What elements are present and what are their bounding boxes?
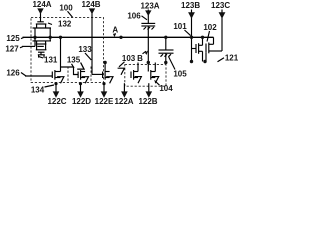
label 135 (67, 56, 81, 68)
svg-text:132: 132 (58, 20, 72, 29)
transistor 101 (173, 22, 204, 63)
wire A to T4 gate (118, 68, 125, 75)
output terminal 122D (72, 82, 91, 106)
svg-text:127: 127 (5, 44, 19, 53)
label 127 (5, 44, 23, 53)
input terminal 123B (181, 1, 200, 62)
svg-text:106: 106 (127, 12, 141, 21)
svg-text:134: 134 (31, 86, 45, 95)
output terminal 122C (47, 82, 66, 106)
svg-text:126: 126 (6, 69, 20, 78)
svg-text:B: B (137, 54, 143, 63)
label 134 (31, 85, 54, 95)
dashed box 104 (125, 65, 166, 87)
transistor 131 (33, 41, 58, 65)
label 133 (78, 45, 92, 60)
label 125 (6, 34, 24, 43)
output terminal 122E (95, 82, 114, 106)
label 121 (218, 54, 239, 63)
node A (112, 25, 118, 37)
node dot left (33, 36, 36, 39)
svg-text:124B: 124B (81, 0, 100, 9)
wire left pillar (34, 28, 36, 41)
svg-text:123A: 123A (140, 1, 159, 10)
dashed divider right (90, 67, 92, 83)
svg-text:122D: 122D (72, 97, 91, 106)
wire branch to T2 gate (61, 67, 79, 75)
node dot right (49, 36, 52, 39)
svg-text:122B: 122B (138, 97, 157, 106)
svg-text:131: 131 (44, 55, 58, 64)
capacitor 106 (127, 12, 155, 38)
svg-text:105: 105 (173, 70, 187, 79)
output terminal 122A (114, 83, 133, 106)
svg-text:100: 100 (59, 3, 73, 12)
node B label (137, 50, 148, 63)
label 126 wire (6, 69, 52, 78)
svg-text:A: A (112, 25, 118, 34)
transistor T5 (output 122B) (151, 63, 159, 84)
wire bus1 (node A line) (23, 36, 214, 38)
svg-text:135: 135 (67, 56, 81, 65)
wire 127 to gate of 131 (22, 37, 35, 46)
svg-text:123B: 123B (181, 1, 200, 10)
transistor T4 (output 122A) (131, 63, 141, 84)
svg-text:124A: 124A (32, 0, 51, 9)
svg-text:122A: 122A (114, 97, 133, 106)
transistor 134 (output 122C) (52, 36, 64, 84)
transistor 102 (203, 23, 222, 63)
wire node B vertical (147, 37, 149, 71)
output terminal 122B (138, 83, 157, 106)
svg-text:104: 104 (159, 84, 173, 93)
dashed box 100 (31, 18, 104, 83)
svg-text:122C: 122C (47, 97, 66, 106)
svg-text:121: 121 (225, 54, 239, 63)
transistor 133 (output 122E) (92, 61, 113, 84)
wire right pillar (49, 28, 51, 41)
node dot B (147, 61, 150, 64)
label 103 (119, 54, 136, 67)
input terminal 124A (32, 0, 51, 22)
label 104 (155, 81, 174, 93)
svg-text:103: 103 (122, 54, 136, 63)
input terminal 123A (140, 1, 159, 23)
transistor 135 (output 122D) (78, 70, 88, 83)
input terminal 124B (81, 0, 100, 74)
svg-text:102: 102 (203, 23, 217, 32)
svg-text:122E: 122E (95, 97, 114, 106)
transistor 132 (33, 20, 72, 29)
svg-text:123C: 123C (211, 1, 230, 10)
label 100 (59, 3, 73, 17)
svg-text:125: 125 (6, 34, 20, 43)
capacitor 105 (159, 36, 188, 79)
input terminal 123C (211, 1, 230, 51)
dashed divider left (67, 67, 69, 83)
wire bus2 (77, 63, 84, 70)
node dot 124B/A-line junction (119, 36, 122, 39)
